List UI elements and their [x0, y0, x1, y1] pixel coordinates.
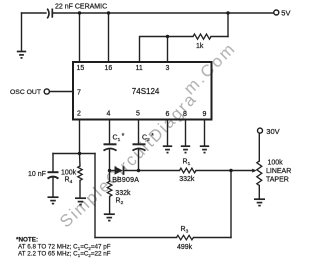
ground under pot [254, 199, 265, 205]
svg-text:10 nF: 10 nF [28, 171, 46, 178]
junction dot C1 diode [108, 169, 111, 172]
wire C1 bottom lead [109, 150, 111, 171]
wire pin11 riser [140, 37, 168, 63]
capacitor 10nF flat plate [48, 171, 59, 173]
capacitor 22nF top (flat plate) [51, 9, 53, 18]
svg-text:R2: R2 [116, 198, 124, 207]
wire long vertical to R3 rail [94, 154, 96, 238]
wire R1 to pot junction [196, 170, 231, 172]
resistor 1k [193, 34, 211, 39]
svg-text:9: 9 [203, 111, 207, 118]
capacitor C1 flat plate [104, 143, 117, 145]
resistor R1 332k [180, 168, 197, 173]
wire pin8 drop [185, 120, 187, 146]
svg-text:74S124: 74S124 [132, 87, 160, 96]
ground under pin6 [163, 146, 172, 152]
junction dot pin3 1k [166, 35, 169, 38]
wire diode anode lead [110, 170, 115, 172]
resistor R2 332k [107, 181, 112, 196]
svg-text:8: 8 [183, 111, 187, 118]
wire R3 rail left [95, 237, 177, 239]
wire R3 rail right [194, 237, 232, 239]
IC U1 74S124 box [73, 62, 212, 120]
ground under pin8 [181, 146, 190, 152]
svg-text:7: 7 [77, 89, 81, 96]
svg-text:6: 6 [166, 111, 170, 118]
capacitor 22nF top (curved plate) [47, 9, 49, 19]
junction dot C2 diode [137, 169, 140, 172]
wire C2 bottom lead [138, 150, 140, 171]
potentiometer 100k zigzag [257, 161, 262, 186]
svg-text:100k: 100k [268, 160, 284, 167]
resistor R4 100k [78, 166, 82, 181]
wire junction drop to R3 rail [230, 171, 232, 238]
svg-text:16: 16 [105, 65, 113, 72]
svg-text:C1*: C1* [113, 133, 125, 143]
svg-text:11: 11 [136, 65, 143, 72]
svg-text:5: 5 [136, 110, 140, 117]
wire 10nF top lead [52, 154, 54, 172]
terminal OSC OUT [44, 89, 49, 94]
svg-text:2: 2 [77, 110, 81, 117]
ground under 10nF [48, 197, 59, 203]
resistor R3 499k [177, 235, 194, 240]
diode BB909A cathode bar [123, 166, 125, 175]
terminal 30V [258, 128, 263, 133]
junction dot rail pin15 [78, 11, 81, 14]
wire 30V drop to pot [258, 134, 260, 162]
svg-text:499k: 499k [177, 244, 193, 251]
capacitor C2 flat plate [133, 143, 146, 145]
wire pot bottom lead [258, 186, 260, 199]
wire 10nF bottom lead [52, 178, 54, 197]
svg-text:332k: 332k [179, 176, 195, 183]
svg-text:4: 4 [107, 110, 111, 117]
wire 1k left lead [168, 36, 194, 38]
junction dot pin2 R4 [78, 152, 81, 155]
diode BB909A triangle [115, 166, 123, 175]
svg-text:100k: 100k [61, 169, 77, 176]
capacitor C1 curved plate [104, 149, 117, 151]
wire pin15 riser [79, 13, 81, 62]
svg-text:LINEAR: LINEAR [266, 168, 291, 175]
svg-text:5V: 5V [281, 9, 290, 18]
wire left drop to ground [21, 13, 23, 51]
wire pin9 drop [204, 120, 206, 146]
ground under pin9 [200, 146, 209, 152]
svg-text:3: 3 [166, 65, 170, 72]
capacitor C2 curved plate [133, 149, 146, 151]
wire R4 top lead [79, 154, 82, 167]
wire pin2 drop [79, 120, 81, 154]
wire pin3 riser [167, 37, 169, 63]
svg-text:TAPER: TAPER [266, 176, 289, 183]
junction dot rail 5V branch [226, 11, 229, 14]
ground under R4 [75, 198, 86, 204]
wire C2 junction to R1 [139, 170, 180, 172]
wire pin16 riser [108, 13, 110, 62]
ground top-left [17, 52, 26, 58]
junction dot R1 pot [229, 169, 232, 172]
wire diode cathode lead [124, 170, 139, 172]
svg-text:22 nF CERAMIC: 22 nF CERAMIC [55, 3, 107, 10]
wire pin5 drop to C2 [138, 120, 140, 144]
svg-text:30V: 30V [266, 127, 279, 136]
svg-text:m.Com: m.Com [180, 38, 240, 98]
svg-text:*NOTE:: *NOTE: [16, 237, 38, 244]
capacitor 10nF curved plate [48, 177, 59, 179]
wire pot wiper lead [231, 170, 253, 172]
wire OSC OUT to pin7 [50, 91, 73, 93]
wire R2 top lead [109, 171, 111, 182]
wire 1k right lead [211, 36, 228, 38]
wire pin6 drop [167, 120, 169, 146]
wire R4 bottom lead [79, 181, 81, 198]
terminal 5V [274, 10, 279, 15]
svg-text:15: 15 [77, 65, 85, 72]
svg-text:1k: 1k [196, 43, 204, 50]
svg-text:332k: 332k [115, 190, 131, 197]
wire pin4 drop to C1 [109, 120, 111, 144]
wire 5V branch drop [227, 13, 229, 37]
svg-text:BB909A: BB909A [112, 177, 139, 184]
wire top rail left segment [22, 12, 47, 14]
wire 10nF branch horizontal [53, 153, 95, 155]
svg-text:AT 2.2 TO 65 MHz; C1=C2=22 nF: AT 2.2 TO 65 MHz; C1=C2=22 nF [18, 251, 111, 258]
ground under R2 [104, 214, 115, 220]
wire top rail right segment [53, 12, 274, 14]
potentiometer wiper arrow [252, 169, 257, 173]
wire R2 bottom lead [109, 197, 111, 214]
svg-text:OSC OUT: OSC OUT [10, 89, 41, 96]
svg-text:R1: R1 [183, 159, 191, 168]
svg-text:R3: R3 [181, 226, 189, 235]
svg-text:R4: R4 [65, 177, 73, 186]
junction dot rail pin16 [107, 11, 110, 14]
